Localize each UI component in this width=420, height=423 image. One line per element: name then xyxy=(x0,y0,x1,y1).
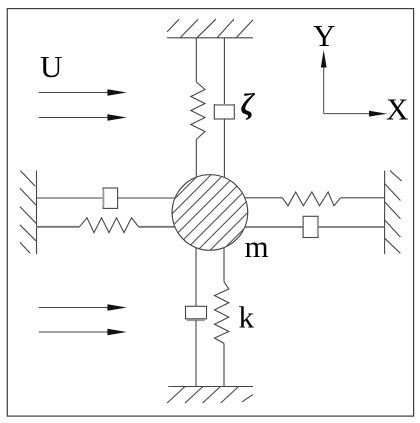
svg-text:U: U xyxy=(40,49,62,84)
damper box xyxy=(103,188,118,208)
top damper branch: wire from ceiling xyxy=(223,38,225,106)
wire damper to mass xyxy=(223,119,225,180)
wire spring to floor xyxy=(223,343,225,386)
flow arrow U top 2 xyxy=(39,114,127,121)
flow arrow bottom 2 xyxy=(39,329,127,336)
spring xyxy=(80,218,139,233)
left damper branch: wire from wall xyxy=(36,197,103,199)
ceiling support xyxy=(167,19,253,38)
right damper branch: wire from mass xyxy=(242,226,303,228)
damper box xyxy=(186,306,207,319)
axis Y arrow xyxy=(323,66,325,114)
top spring xyxy=(191,82,205,140)
right spring branch: wire from mass xyxy=(242,197,282,199)
wire damper to mass xyxy=(118,197,178,199)
left wall support xyxy=(20,171,37,254)
coordinate axes xyxy=(321,50,388,117)
svg-text:k: k xyxy=(239,300,255,335)
damper (zeta) box xyxy=(214,105,234,119)
flow arrow bottom 1 xyxy=(39,304,127,311)
damper box xyxy=(303,216,318,237)
spring xyxy=(282,192,340,206)
damper piston bar xyxy=(187,319,205,321)
wire spring to wall xyxy=(341,197,385,199)
top spring branch: wire from ceiling xyxy=(195,38,197,82)
wire spring to mass xyxy=(139,226,178,228)
wire damper to wall xyxy=(318,226,384,228)
right wall support xyxy=(385,171,402,254)
wire spring to mass xyxy=(195,140,197,181)
left spring branch: wire from wall xyxy=(36,226,79,228)
damper piston bar xyxy=(102,190,104,207)
spring k xyxy=(215,282,229,344)
svg-text:m: m xyxy=(245,229,269,264)
floor support xyxy=(167,387,253,404)
damper piston bar xyxy=(317,218,319,236)
svg-text:X: X xyxy=(386,92,408,127)
wire damper to floor xyxy=(195,320,197,386)
damper piston bar xyxy=(216,104,234,106)
flow arrow U top 1 xyxy=(39,89,127,96)
svg-text:Y: Y xyxy=(313,18,335,53)
bottom damper branch: wire from mass xyxy=(195,246,197,306)
bottom spring branch: wire from mass xyxy=(223,246,225,282)
svg-text:ζ: ζ xyxy=(241,87,256,122)
axis X arrow xyxy=(324,113,370,115)
